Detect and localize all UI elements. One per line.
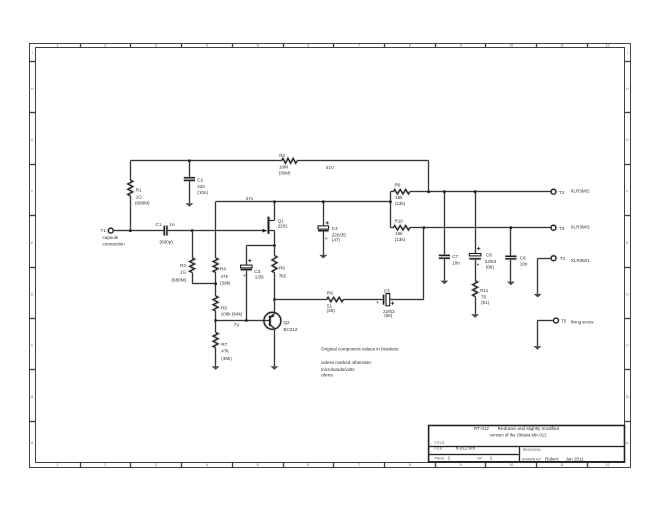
svg-text:22/63: 22/63 [485,259,497,264]
svg-text:220/35: 220/35 [332,232,346,237]
svg-text:R3: R3 [180,263,186,268]
svg-text:4: 4 [206,463,208,467]
svg-text:R8: R8 [395,183,401,188]
svg-text:(680M): (680M) [135,201,150,206]
svg-text:(13k): (13k) [395,237,406,242]
svg-text:5: 5 [257,44,259,48]
svg-text:Robert: Robert [545,456,559,461]
svg-text:1: 1 [57,44,59,48]
svg-text:2: 2 [104,44,106,48]
svg-text:5: 5 [257,463,259,467]
svg-text:C7: C7 [452,254,458,259]
svg-text:ohms: ohms [321,373,333,379]
svg-text:C2: C2 [197,178,203,183]
svg-text:capsule: capsule [103,235,119,240]
svg-text:R9: R9 [327,291,333,296]
svg-text:7: 7 [358,463,360,467]
svg-text:10: 10 [509,463,513,467]
svg-text:47k: 47k [221,349,229,354]
svg-text:(30M): (30M) [279,170,291,175]
svg-text:8: 8 [409,44,411,48]
svg-text:C5: C5 [384,289,390,294]
svg-text:R10: R10 [395,219,404,224]
svg-text:H: H [626,87,629,91]
svg-text:(680M): (680M) [172,278,187,283]
svg-text:9: 9 [460,44,462,48]
svg-text:DRAWN BY:: DRAWN BY: [522,457,542,461]
svg-text:(10n): (10n) [197,190,208,195]
svg-text:Q1: Q1 [278,219,285,224]
svg-text:BC212: BC212 [283,327,297,332]
svg-text:C4: C4 [332,226,338,231]
svg-text:12: 12 [606,44,610,48]
svg-text:11: 11 [560,463,564,467]
svg-text:22n: 22n [197,184,205,189]
svg-text:T2: T2 [559,190,565,195]
svg-text:PAGE: PAGE [435,457,445,461]
svg-text:(51): (51) [481,300,490,305]
svg-text:15k: 15k [395,231,403,236]
svg-text:C6: C6 [486,252,492,257]
svg-text:T3: T3 [559,226,565,231]
svg-text:RT-012: RT-012 [474,426,489,431]
svg-text:R5: R5 [221,305,227,310]
svg-text:75: 75 [481,294,487,299]
svg-text:47k: 47k [221,274,229,279]
svg-text:(39k): (39k) [220,281,231,286]
svg-text:(36): (36) [327,308,336,313]
svg-text:(36k): (36k) [221,356,232,361]
svg-text:T1: T1 [101,228,107,233]
svg-text:(47): (47) [332,238,341,243]
svg-text:(68): (68) [486,264,495,269]
svg-text:7V: 7V [234,322,241,327]
svg-text:C: C [31,344,34,348]
svg-text:XLR3M/3: XLR3M/3 [571,224,590,229]
svg-text:6: 6 [307,463,309,467]
svg-text:(56): (56) [384,313,393,318]
svg-text:TITLE:: TITLE: [435,441,446,445]
svg-text:R11: R11 [480,288,489,293]
svg-text:D: D [31,292,34,296]
svg-text:Jan 2011: Jan 2011 [566,456,584,461]
svg-text:10: 10 [509,44,513,48]
svg-text:1n: 1n [169,222,175,227]
svg-text:Q2: Q2 [283,320,290,325]
svg-text:FILE:: FILE: [435,447,444,451]
svg-text:12: 12 [606,463,610,467]
svg-text:1/35: 1/35 [255,275,264,280]
svg-text:Redrawn and slightly modified: Redrawn and slightly modified [498,426,560,431]
svg-text:R4: R4 [220,267,226,272]
svg-text:15k: 15k [395,195,403,200]
svg-text:8: 8 [409,463,411,467]
svg-text:R2: R2 [279,153,285,158]
svg-text:T4: T4 [560,256,566,261]
svg-text:OF: OF [477,457,483,461]
svg-text:3: 3 [155,463,157,467]
svg-text:4: 4 [206,44,208,48]
svg-text:R7: R7 [221,342,227,347]
svg-text:27v: 27v [246,196,254,201]
svg-text:1G: 1G [136,194,143,199]
svg-text:R6: R6 [279,265,285,270]
svg-text:C1: C1 [156,222,162,227]
svg-text:connection: connection [103,241,126,246]
svg-text:G: G [31,138,34,142]
svg-text:fixing screw: fixing screw [571,320,594,325]
svg-text:11: 11 [560,44,564,48]
svg-text:(13k): (13k) [395,201,406,206]
svg-text:unless marked otherwise:: unless marked otherwise: [321,360,372,366]
svg-text:1G: 1G [180,270,187,275]
svg-text:C: C [626,344,629,348]
svg-text:microfarads/volts: microfarads/volts [321,367,355,373]
svg-text:41V: 41V [326,165,335,170]
svg-text:(680p): (680p) [160,239,174,244]
svg-text:100k (84k): 100k (84k) [221,311,243,316]
svg-text:2201: 2201 [278,223,289,228]
svg-text:version of the Oktava MK-012: version of the Oktava MK-012 [490,433,547,438]
svg-text:Original component values in b: Original component values in brackets [321,347,399,353]
svg-text:C8: C8 [520,255,526,260]
svg-text:R1: R1 [136,188,142,193]
svg-text:10n: 10n [520,261,528,266]
svg-text:D: D [626,292,629,296]
svg-text:6: 6 [307,44,309,48]
svg-text:7k5: 7k5 [279,273,287,278]
svg-text:I: I [32,51,33,55]
svg-text:rt-012.sch: rt-012.sch [456,446,476,451]
svg-text:10M: 10M [279,165,288,170]
svg-text:3: 3 [155,44,157,48]
svg-text:7: 7 [358,44,360,48]
svg-text:9: 9 [460,463,462,467]
svg-text:T5: T5 [561,318,567,323]
svg-text:2: 2 [104,463,106,467]
svg-text:10n: 10n [452,261,460,266]
svg-text:XLR3M/2: XLR3M/2 [571,188,590,193]
svg-text:1: 1 [57,463,59,467]
svg-text:I: I [627,51,628,55]
svg-text:G: G [626,138,629,142]
svg-text:H: H [31,87,34,91]
svg-text:C3: C3 [254,269,260,274]
svg-text:REVISION:: REVISION: [523,448,541,452]
svg-text:XLR3M/1: XLR3M/1 [571,258,590,263]
